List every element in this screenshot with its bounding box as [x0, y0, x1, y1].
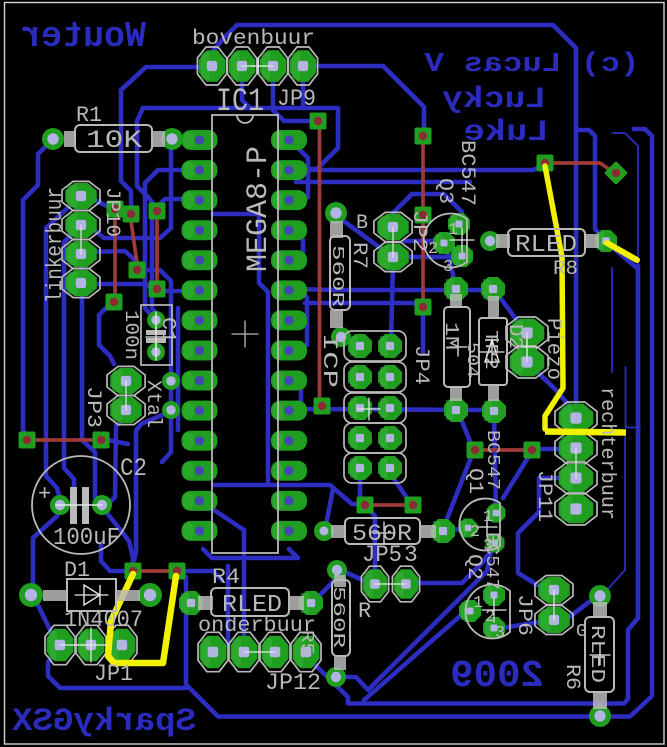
svg-text:JP1: JP1: [94, 661, 133, 687]
svg-text:C1: C1: [157, 317, 179, 343]
svg-text:SparkyGSX: SparkyGSX: [11, 703, 196, 740]
svg-text:Xtal: Xtal: [141, 380, 164, 428]
svg-text:2: 2: [428, 240, 438, 259]
svg-text:G: G: [576, 622, 587, 642]
svg-text:R7: R7: [347, 242, 370, 269]
svg-text:D2: D2: [504, 324, 526, 349]
svg-text:linkerbuur: linkerbuur: [43, 187, 68, 303]
svg-text:1: 1: [483, 508, 493, 527]
svg-text:Q3: Q3: [433, 178, 456, 204]
svg-text:C2: C2: [120, 454, 147, 483]
svg-text:MEGA8-P: MEGA8-P: [242, 146, 276, 272]
svg-text:JP4: JP4: [409, 345, 432, 385]
svg-text:1N4007: 1N4007: [64, 607, 143, 633]
svg-text:2: 2: [470, 523, 480, 542]
svg-text:560R: 560R: [328, 586, 347, 648]
svg-text:bovenbuur: bovenbuur: [192, 28, 315, 51]
svg-text:Piezo: Piezo: [541, 318, 564, 380]
svg-text:JP3: JP3: [81, 386, 104, 428]
svg-text:3: 3: [443, 258, 453, 277]
svg-text:R5: R5: [296, 630, 316, 655]
svg-text:JP11: JP11: [532, 470, 555, 522]
svg-text:ICP: ICP: [317, 333, 340, 388]
svg-text:Lucky: Lucky: [442, 83, 546, 117]
svg-text:504: 504: [462, 342, 481, 378]
svg-text:560R: 560R: [327, 245, 346, 307]
svg-text:B: B: [356, 212, 368, 235]
svg-text:(c) Lucas V: (c) Lucas V: [424, 50, 640, 80]
svg-text:2009: 2009: [450, 655, 544, 698]
svg-text:JP10: JP10: [100, 187, 123, 237]
svg-text:R8: R8: [553, 258, 578, 281]
svg-text:R6: R6: [560, 664, 583, 690]
svg-text:JP5: JP5: [362, 542, 402, 568]
svg-text:3: 3: [404, 542, 418, 568]
svg-text:10K: 10K: [86, 126, 142, 155]
svg-text:R: R: [358, 599, 371, 624]
svg-text:Luke: Luke: [464, 116, 549, 150]
svg-text:R1: R1: [76, 103, 102, 128]
svg-text:RLED: RLED: [586, 625, 608, 683]
svg-text:BC547: BC547: [482, 430, 502, 490]
svg-text:+: +: [38, 482, 51, 507]
svg-text:D1: D1: [64, 558, 90, 583]
svg-text:3: 3: [495, 624, 505, 643]
svg-text:JP12: JP12: [265, 670, 321, 696]
svg-text:TR2: TR2: [480, 330, 500, 370]
svg-text:2: 2: [485, 608, 495, 627]
svg-text:1M: 1M: [440, 322, 462, 350]
svg-text:100uF: 100uF: [53, 525, 120, 552]
svg-text:1: 1: [473, 594, 483, 613]
svg-text:rechterbuur: rechterbuur: [595, 387, 618, 520]
svg-text:JP9: JP9: [277, 86, 316, 112]
svg-text:100n: 100n: [120, 310, 142, 360]
svg-text:R4: R4: [212, 565, 240, 590]
svg-text:1: 1: [448, 221, 458, 240]
svg-text:JP2: JP2: [407, 210, 430, 252]
svg-text:Wouter: Wouter: [20, 16, 146, 57]
svg-text:IC1: IC1: [216, 83, 264, 120]
svg-text:JP6: JP6: [512, 594, 535, 636]
svg-text:3: 3: [483, 537, 493, 556]
svg-text:RLED: RLED: [515, 232, 577, 259]
